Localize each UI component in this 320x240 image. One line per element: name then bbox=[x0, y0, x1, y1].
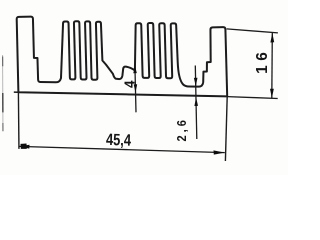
arrow up of 4 bbox=[133, 65, 137, 73]
svg-text:16: 16 bbox=[254, 48, 271, 74]
extension line right (45,4) bbox=[225, 96, 227, 161]
arrow right of 45,4 bbox=[214, 150, 225, 154]
extension line left (45,4) bbox=[17, 92, 20, 149]
arrow down of 4 bbox=[134, 84, 138, 92]
dimension line 2,6 bbox=[195, 66, 197, 140]
dimension line 45,4 bbox=[19, 146, 225, 152]
base bottom line left stub bbox=[14, 91, 19, 93]
extension line top (16) bbox=[227, 29, 278, 33]
arrow bottom of 16 bbox=[270, 89, 274, 99]
heatsink profile outline bbox=[17, 17, 228, 97]
arrow left of 45,4 bbox=[19, 145, 30, 149]
arrow top of 16 bbox=[270, 33, 274, 43]
dimension line 4 bbox=[135, 65, 136, 112]
page edge artifact line bbox=[2, 55, 4, 130]
svg-text:2,6: 2,6 bbox=[174, 117, 189, 141]
arrow up of 2,6 (tip at base bottom) bbox=[194, 97, 198, 106]
extension line bottom (16) bbox=[227, 97, 277, 99]
arrow down of 2,6 (tip at trough floor) bbox=[194, 78, 198, 87]
svg-text:4: 4 bbox=[122, 80, 139, 88]
svg-text:45,4: 45,4 bbox=[106, 132, 132, 151]
dimension line 16 bbox=[271, 33, 274, 98]
